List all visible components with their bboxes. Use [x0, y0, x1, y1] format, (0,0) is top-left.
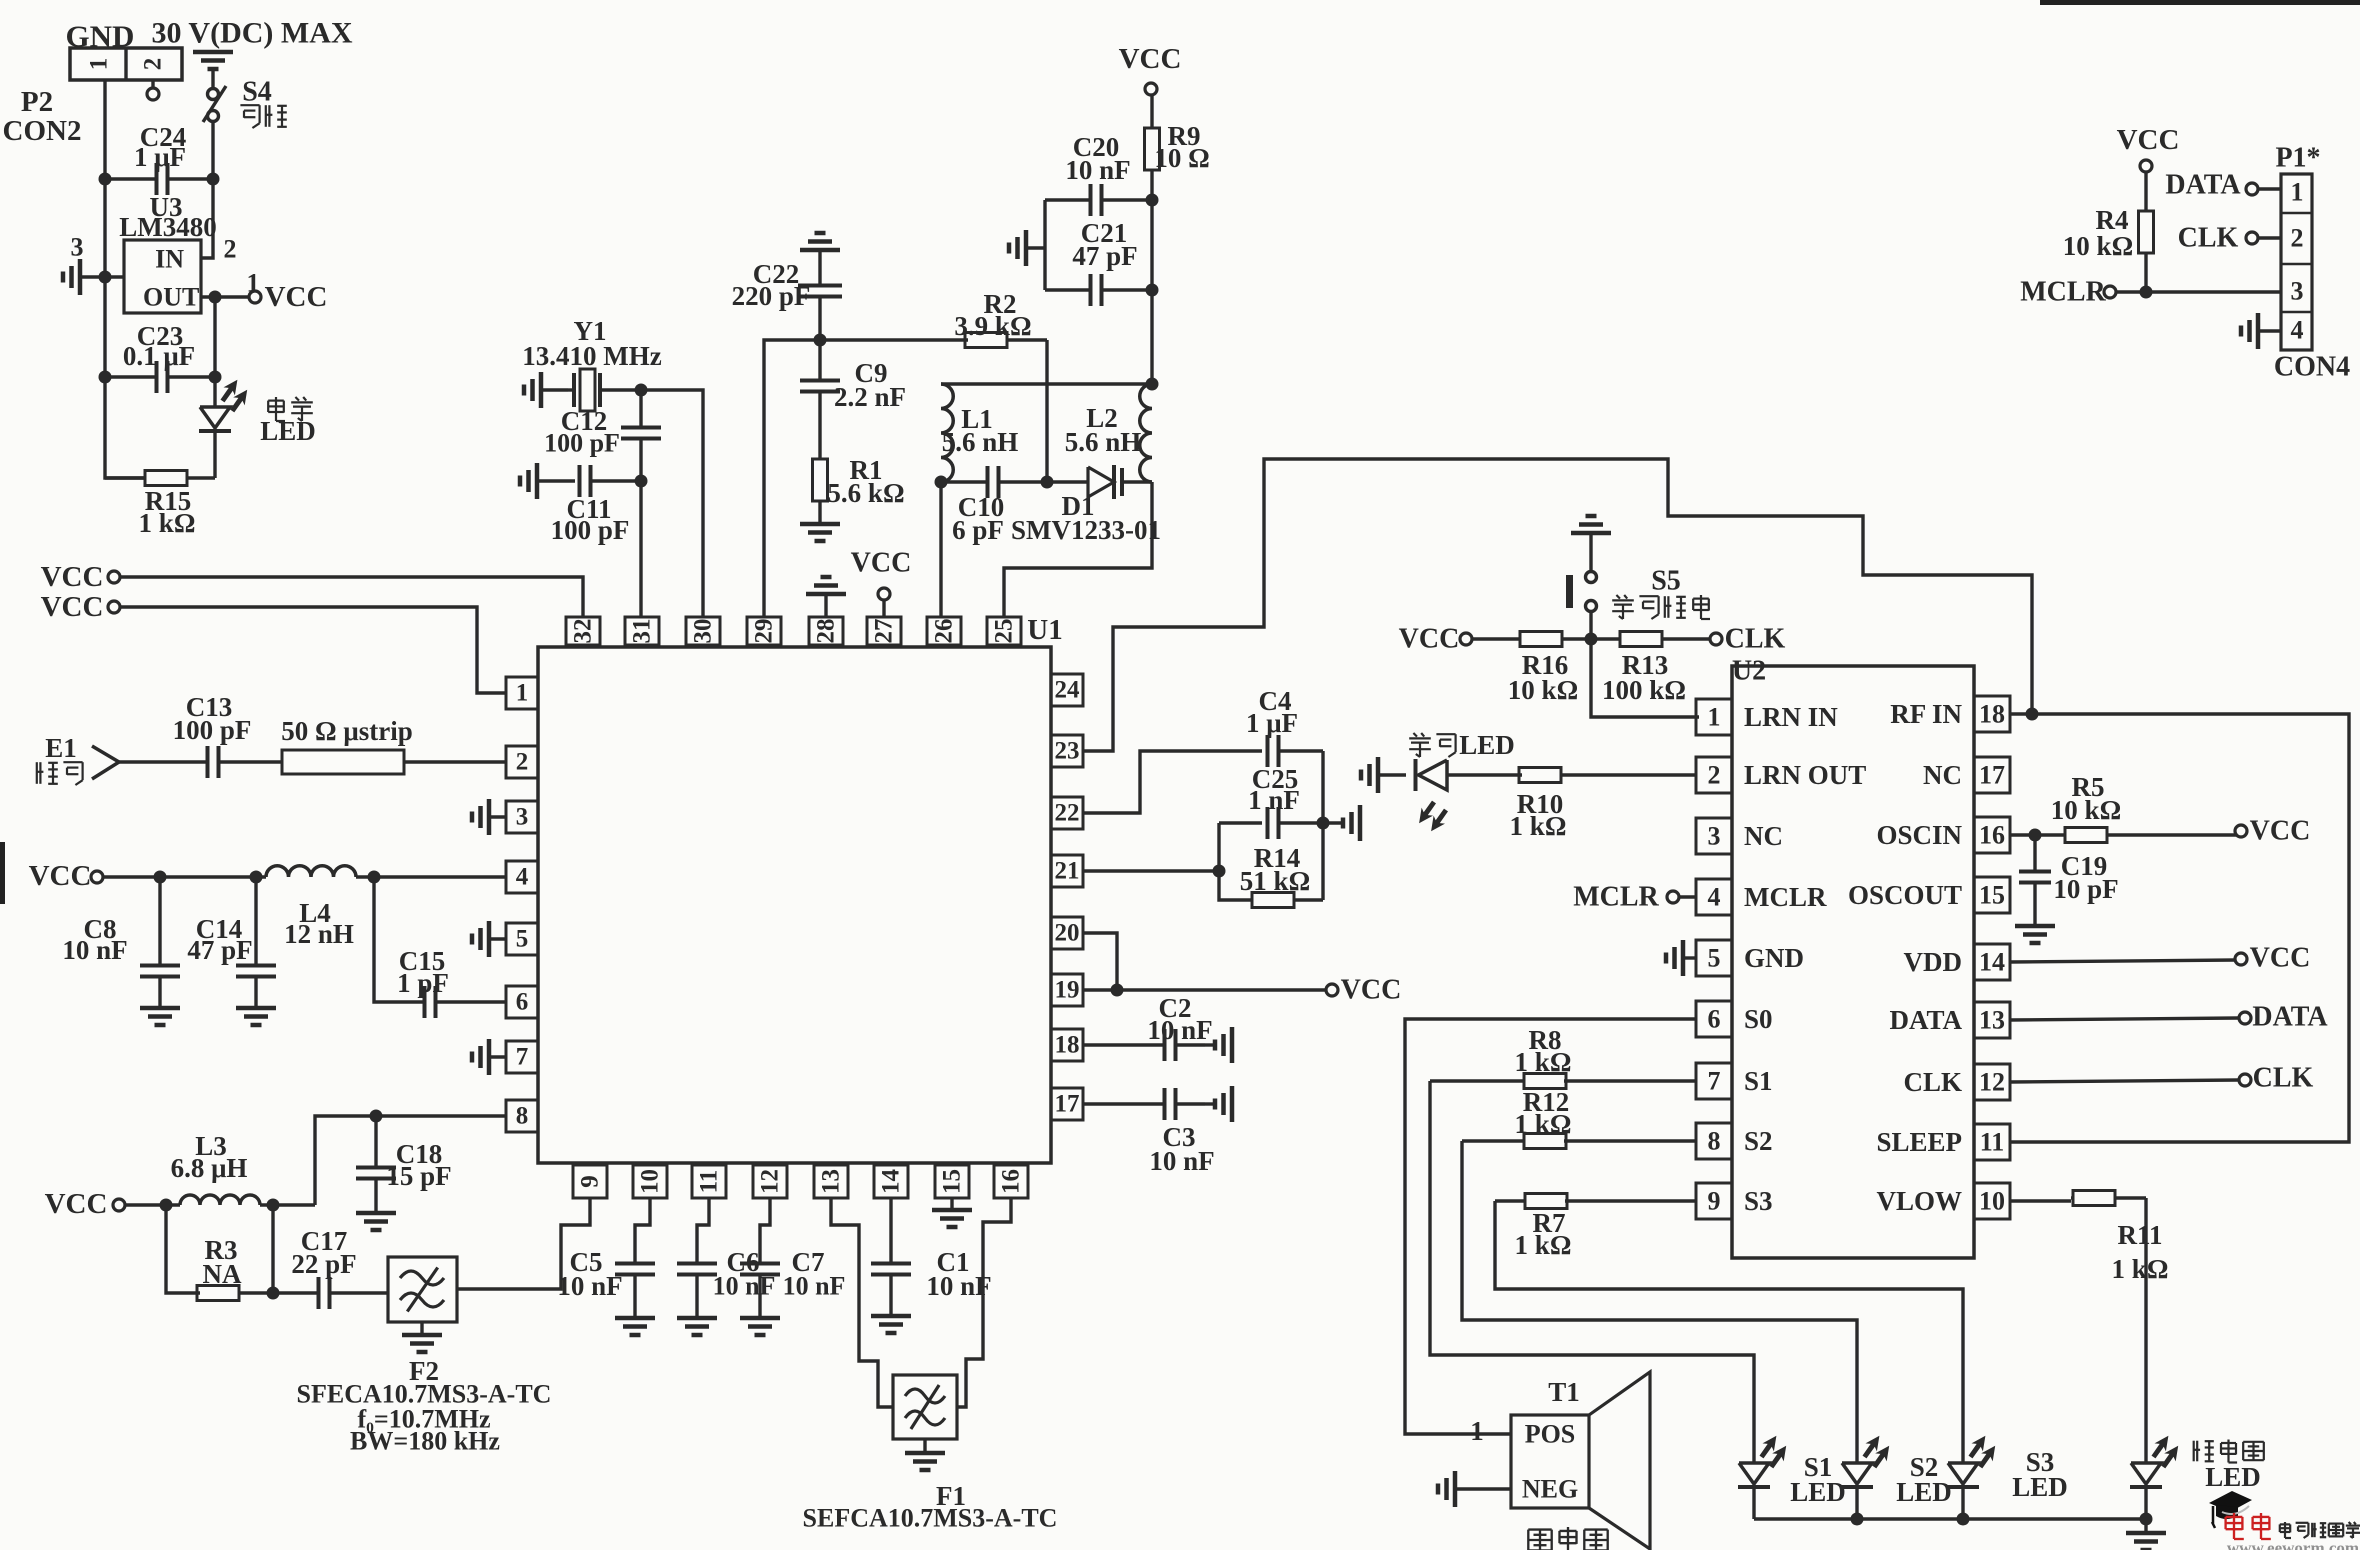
wire Y1 to pin30: [600, 390, 703, 617]
label U3 pin1: [247, 269, 260, 298]
svg-text:18: 18: [1979, 700, 2005, 729]
wire ustrip to pin2: [404, 760, 506, 763]
svg-text:1: 1: [1470, 1416, 1484, 1446]
resistor R15: [105, 471, 215, 486]
wire RFIN row: [2010, 714, 2349, 1142]
svg-text:2: 2: [140, 58, 167, 71]
U2 pin name OSCIN: [1876, 820, 1962, 850]
U1 pin 14: [874, 1165, 908, 1198]
svg-text:7: 7: [516, 1044, 529, 1071]
svg-text:13.410 MHz: 13.410 MHz: [522, 341, 661, 371]
svg-text:8: 8: [1708, 1127, 1721, 1156]
U1 pin 21: [1051, 855, 1083, 887]
label C21 value: [1072, 241, 1137, 271]
svg-text:5.6 nH: 5.6 nH: [942, 427, 1019, 457]
terminal VCC row3: [91, 871, 103, 883]
watermark chongchong: [2226, 1513, 2271, 1539]
svg-text:47 pF: 47 pF: [187, 935, 252, 965]
junction OSCIN: [2029, 829, 2042, 842]
label P2: [21, 86, 53, 118]
ground C22: [800, 233, 840, 250]
svg-text:9: 9: [1708, 1187, 1721, 1216]
label C20 value: [1065, 155, 1130, 185]
junction L1 bottom: [935, 476, 948, 489]
svg-text:1 kΩ: 1 kΩ: [139, 508, 196, 538]
wire DATA to P1: [2258, 187, 2281, 190]
svg-text:CLK: CLK: [2178, 223, 2239, 254]
ground C14: [236, 1008, 276, 1025]
U2 pin name NC: [1923, 760, 1962, 790]
wire pin11 to C6: [697, 1198, 709, 1263]
U1 pin 29: [747, 617, 781, 645]
label C17 value: [291, 1249, 356, 1279]
label C1: [937, 1247, 970, 1277]
svg-text:16: 16: [998, 1169, 1025, 1194]
svg-text:19: 19: [1055, 977, 1080, 1004]
junction RFIN: [2026, 708, 2039, 721]
wire C21 to C20: [1150, 200, 1153, 290]
svg-text:DATA: DATA: [1890, 1005, 1963, 1035]
svg-text:1 kΩ: 1 kΩ: [1515, 1109, 1572, 1139]
capacitor C5: [615, 1264, 655, 1319]
label T1: [1548, 1377, 1580, 1407]
terminal P2 pin2: [147, 88, 159, 100]
svg-text:IN: IN: [155, 245, 184, 274]
svg-text:LED: LED: [2205, 1462, 2261, 1492]
svg-text:VCC: VCC: [2117, 124, 2180, 156]
wire gnd to LED: [1378, 773, 1406, 776]
label xuexi LED cjk: [1409, 733, 1455, 757]
wire pin10 to C5: [635, 1198, 650, 1263]
wire C12 to pin31: [639, 481, 642, 617]
ground C1: [871, 1316, 911, 1333]
U2 pin 7: [1696, 1063, 1732, 1099]
wire antenna to C13: [119, 760, 207, 763]
capacitor C24: [105, 163, 213, 195]
label GND: [66, 19, 135, 54]
label C23 value: [123, 341, 195, 371]
ground P1 pin4: [2241, 313, 2281, 349]
U1 pin 19: [1051, 974, 1083, 1006]
label R13 value: [1602, 675, 1686, 705]
ground learn LED: [1361, 757, 1378, 793]
label F2 bw: [350, 1427, 500, 1456]
label L4 value: [284, 919, 354, 949]
inductor L2: [1140, 384, 1152, 482]
svg-text:LM3480: LM3480: [119, 212, 217, 242]
svg-text:10 nF: 10 nF: [62, 935, 127, 965]
label S3 LED: [2012, 1472, 2068, 1502]
svg-text:20: 20: [1055, 920, 1080, 947]
ground U3 pin3: [63, 259, 105, 295]
wire to C15: [374, 877, 424, 1002]
label VCC row1: [41, 561, 104, 593]
U2 pin name VLOW: [1876, 1186, 1962, 1216]
label VCC row4: [45, 1188, 108, 1220]
svg-text:22 pF: 22 pF: [291, 1249, 356, 1279]
terminal MCLR U2: [1667, 891, 1679, 903]
wire S1 LED down: [1752, 1487, 1755, 1519]
watermark url: [2227, 1539, 2359, 1550]
resistor R7: [1495, 1194, 1567, 1209]
label F2: [409, 1356, 439, 1386]
label xuexi LED: [1459, 730, 1515, 760]
ground pin7: [472, 1039, 506, 1075]
svg-text:R11: R11: [2117, 1220, 2162, 1250]
label R10 value: [1510, 811, 1567, 841]
capacitor C13: [208, 746, 283, 778]
U2 pin 17: [1974, 757, 2010, 793]
ground pin15: [932, 1198, 972, 1227]
buzzer T1: [1511, 1372, 1650, 1549]
svg-text:RF IN: RF IN: [1890, 699, 1962, 729]
ground 30V input: [193, 52, 233, 69]
wire pin23 net: [1083, 459, 2032, 751]
label R11 value: [2112, 1254, 2169, 1284]
capacitor C14: [236, 877, 276, 1008]
svg-text:10: 10: [637, 1169, 664, 1194]
U1 pin 2: [506, 746, 538, 778]
label C11: [566, 494, 611, 524]
wire C22 to row: [818, 297, 821, 340]
resistor R12: [1462, 1134, 1566, 1149]
U2 pin name CLK: [1903, 1067, 1962, 1097]
junction C10 D1: [1041, 476, 1054, 489]
wire S4 to C24: [211, 121, 214, 179]
svg-text:6: 6: [1708, 1005, 1721, 1034]
junction R4 MCLR: [2140, 286, 2153, 299]
junction Y1 C12: [635, 384, 648, 397]
svg-text:T1: T1: [1548, 1377, 1580, 1407]
ground pin5: [472, 921, 506, 957]
svg-text:5.6 kΩ: 5.6 kΩ: [827, 478, 904, 508]
U1 pin 3: [506, 801, 538, 833]
svg-text:13: 13: [818, 1169, 845, 1194]
label C23: [137, 321, 184, 351]
U2 pin name GND: [1744, 943, 1804, 973]
label D1 part: [1011, 515, 1161, 545]
wire R11 to LED: [2144, 1198, 2147, 1463]
wire S3 net: [1565, 1199, 1696, 1202]
wire LED to R15: [213, 431, 216, 478]
U2 pin 3: [1696, 818, 1732, 854]
svg-text:S5: S5: [1651, 566, 1681, 597]
capacitor C12: [621, 390, 661, 481]
svg-text:8: 8: [516, 1103, 529, 1130]
label C9 value: [834, 382, 906, 412]
U1 pin 9: [573, 1165, 607, 1198]
svg-text:15: 15: [1979, 881, 2005, 910]
svg-text:31: 31: [629, 619, 656, 644]
svg-text:VCC: VCC: [29, 860, 92, 892]
label dianyuan: [268, 397, 313, 421]
svg-text:1 kΩ: 1 kΩ: [1510, 811, 1567, 841]
U2 pin 5: [1696, 940, 1732, 976]
capacitor C19: [2019, 835, 2051, 926]
label 30 V(DC) MAX: [151, 17, 352, 50]
terminal CLK P1: [2246, 232, 2258, 244]
U2 pin name S1: [1744, 1066, 1773, 1096]
svg-text:13: 13: [1979, 1006, 2005, 1035]
label DATA U2: [2252, 1002, 2328, 1033]
capacitor C15: [425, 986, 507, 1018]
wire VCC row3: [103, 875, 266, 878]
svg-text:25: 25: [991, 619, 1018, 644]
U2 pin name S0: [1744, 1004, 1773, 1034]
label F1 part: [803, 1504, 1058, 1533]
svg-text:11: 11: [696, 1170, 723, 1194]
svg-text:SEFCA10.7MS3-A-TC: SEFCA10.7MS3-A-TC: [803, 1504, 1058, 1533]
svg-text:S0: S0: [1744, 1004, 1773, 1034]
U2 pin 18: [1974, 696, 2010, 732]
wire gnd to C22: [818, 250, 821, 285]
svg-text:VCC: VCC: [1399, 624, 1460, 655]
terminal VCC out: [249, 291, 261, 303]
microstrip 50ohm: [282, 750, 404, 774]
capacitor C10: [941, 466, 1047, 498]
label C8 value: [62, 935, 127, 965]
svg-text:14: 14: [878, 1169, 905, 1195]
svg-text:30 V(DC) MAX: 30 V(DC) MAX: [151, 17, 352, 50]
watermark logo cap: [2209, 1491, 2252, 1528]
label R3 value: [203, 1259, 242, 1289]
varactor D1: [1047, 465, 1152, 499]
LED S3: [1947, 1436, 1995, 1487]
wire CLK row: [2010, 1080, 2239, 1082]
wire U3 OUT: [201, 295, 249, 298]
label C22: [753, 259, 800, 289]
svg-text:23: 23: [1055, 738, 1080, 765]
svg-text:26: 26: [931, 619, 958, 644]
svg-text:1 nF: 1 nF: [1248, 785, 1300, 815]
svg-text:10 pF: 10 pF: [2053, 874, 2118, 904]
wire to C17: [273, 1291, 318, 1294]
label CLK R13: [1725, 624, 1786, 655]
svg-text:5: 5: [516, 926, 529, 953]
wire VCC to L3: [125, 1203, 180, 1206]
U2 pin name SLEEP: [1876, 1127, 1962, 1157]
connector P1 CON4: [2281, 174, 2312, 350]
svg-text:S1: S1: [1744, 1066, 1773, 1096]
label C18 value: [386, 1161, 451, 1191]
svg-text:CLK: CLK: [2253, 1063, 2314, 1094]
wire LED rail: [1754, 1517, 2146, 1520]
label R11: [2117, 1220, 2162, 1250]
label R2: [984, 289, 1017, 319]
svg-text:2: 2: [516, 749, 529, 776]
wire LED to R10: [1447, 773, 1522, 776]
junction rail lv: [2140, 1513, 2153, 1526]
wire P2 down to C23: [103, 277, 106, 377]
label S2 LED: [1896, 1477, 1952, 1507]
junction C25 R14: [1317, 817, 1330, 830]
U2 pin name S2: [1744, 1126, 1773, 1156]
svg-text:1 kΩ: 1 kΩ: [1515, 1047, 1572, 1077]
svg-text:6.8 μH: 6.8 μH: [171, 1153, 248, 1183]
terminal DATA U2: [2239, 1012, 2251, 1024]
svg-text:17: 17: [1055, 1091, 1080, 1118]
label R12 value: [1515, 1109, 1572, 1139]
wire C4 down: [1321, 751, 1324, 823]
svg-text:2: 2: [1708, 761, 1721, 790]
junction pin3 row: [99, 271, 112, 284]
label C5 value: [557, 1271, 622, 1301]
U1 pin 18: [1051, 1029, 1083, 1061]
U1 pin 20: [1051, 917, 1083, 949]
LED low-voltage: [2130, 1436, 2178, 1487]
svg-text:51 kΩ: 51 kΩ: [1240, 866, 1310, 896]
wire pin20: [1083, 933, 1117, 990]
capacitor C18: [356, 1116, 396, 1213]
svg-text:22: 22: [1055, 800, 1080, 827]
filter F2: [388, 1257, 457, 1322]
wire P2 down to R15: [105, 377, 145, 478]
label R16 value: [1508, 675, 1578, 705]
wire R14 left leg: [1219, 823, 1253, 900]
svg-text:LRN OUT: LRN OUT: [1744, 760, 1866, 790]
crystal Y1: [568, 369, 600, 411]
wire C25 left: [1219, 821, 1262, 824]
svg-text:4: 4: [516, 864, 529, 891]
junction pin21: [1213, 865, 1226, 878]
label C25 value: [1248, 785, 1300, 815]
svg-text:10 nF: 10 nF: [1065, 155, 1130, 185]
label C25: [1252, 764, 1299, 794]
label C11 value: [551, 515, 630, 545]
U1 pin 32: [566, 617, 600, 645]
svg-text:1 kΩ: 1 kΩ: [1515, 1230, 1572, 1260]
svg-text:S2: S2: [1744, 1126, 1773, 1156]
U2 pin name VDD: [1904, 947, 1963, 977]
wire C23 to LED: [213, 377, 216, 407]
pushbutton S5: [1566, 533, 1597, 612]
junction S5 R16 R13: [1585, 633, 1598, 646]
svg-text:18: 18: [1055, 1032, 1080, 1059]
wire pin26 riser: [939, 482, 942, 617]
svg-text:4: 4: [1708, 883, 1721, 912]
U1 pin 30: [686, 617, 720, 645]
svg-text:2.2 nF: 2.2 nF: [834, 382, 906, 412]
label L1: [961, 404, 993, 434]
svg-text:5.6 nH: 5.6 nH: [1065, 427, 1142, 457]
wire S5 down: [1591, 611, 1699, 717]
svg-text:100 pF: 100 pF: [544, 429, 620, 458]
ground R1: [800, 524, 840, 541]
wire R8 stair: [1430, 1081, 1754, 1463]
svg-text:6 pF: 6 pF: [952, 515, 1004, 545]
svg-text:1: 1: [1708, 703, 1721, 732]
svg-text:OSCIN: OSCIN: [1876, 820, 1962, 850]
svg-text:3: 3: [71, 233, 84, 262]
label R16: [1522, 650, 1569, 680]
svg-text:1 μF: 1 μF: [1246, 708, 1298, 738]
terminal VCC pin27: [878, 588, 890, 600]
svg-text:1 pF: 1 pF: [397, 968, 449, 998]
svg-text:CON2: CON2: [3, 115, 82, 147]
junction C23 left: [99, 371, 112, 384]
filter F1: [893, 1375, 957, 1439]
label R4 value: [2063, 231, 2133, 261]
capacitor C17: [319, 1277, 389, 1309]
wire R2 down: [1045, 340, 1048, 482]
U2 pin 16: [1974, 817, 2010, 853]
label R2 value: [954, 311, 1031, 341]
svg-text:VCC: VCC: [851, 548, 912, 579]
svg-text:VLOW: VLOW: [1876, 1186, 1962, 1216]
label R8 value: [1515, 1047, 1572, 1077]
svg-text:10 nF: 10 nF: [1149, 1146, 1214, 1176]
label U3 pin2: [224, 235, 237, 264]
label R5: [2072, 772, 2105, 802]
svg-text:VCC: VCC: [1119, 43, 1182, 75]
junction C18: [370, 1110, 383, 1123]
label R12: [1523, 1087, 1570, 1117]
svg-text:MCLR: MCLR: [1744, 882, 1827, 912]
ground C8: [140, 1008, 180, 1025]
svg-text:NA: NA: [203, 1259, 242, 1289]
IC U1 body: [538, 647, 1051, 1163]
terminal VCC R5: [2235, 825, 2247, 837]
svg-text:1 μF: 1 μF: [134, 142, 186, 172]
junction pin19 pin20: [1111, 984, 1124, 997]
scan artifact left edge: [0, 842, 5, 904]
wire pin22 net: [1083, 751, 1262, 813]
svg-text:GND: GND: [1744, 943, 1804, 973]
wire MCLR to P1: [2116, 290, 2281, 293]
U1 pin 11: [692, 1165, 726, 1198]
label didianya: [2194, 1440, 2264, 1463]
svg-text:10: 10: [1979, 1187, 2005, 1216]
U1 pin 5: [506, 923, 538, 955]
LED power: [199, 380, 247, 431]
ground F1: [905, 1439, 945, 1470]
U2 pin name OSCOUT: [1848, 880, 1962, 910]
svg-text:1: 1: [516, 680, 529, 707]
label C14 value: [187, 935, 252, 965]
capacitor C7: [740, 1264, 780, 1319]
connector P2 CON2: [70, 48, 182, 80]
ground LED rail: [2126, 1519, 2166, 1550]
junction L2 top: [1146, 378, 1159, 391]
svg-text:16: 16: [1979, 821, 2005, 850]
wire R9 column: [1150, 290, 1153, 384]
junction C21 right: [1146, 284, 1159, 297]
svg-text:14: 14: [1979, 948, 2005, 977]
wire C2 gnd: [1205, 1043, 1215, 1046]
label C19 value: [2053, 874, 2118, 904]
U1 pin 23: [1051, 735, 1083, 767]
svg-text:P1*: P1*: [2275, 143, 2320, 174]
label C6 value: [713, 1272, 776, 1301]
resistor R14: [1252, 893, 1323, 908]
wire F2 to pin9: [457, 1198, 590, 1289]
ground C6: [677, 1318, 717, 1335]
U1 pin 16: [994, 1165, 1028, 1198]
U1 pin 25: [987, 617, 1021, 645]
U2 pin name NC: [1744, 821, 1783, 851]
svg-text:29: 29: [751, 619, 778, 644]
label C15: [399, 946, 446, 976]
label R14: [1254, 843, 1301, 873]
terminal VCC R16: [1460, 633, 1472, 645]
svg-text:OSCOUT: OSCOUT: [1848, 880, 1962, 910]
U1 pin 26: [927, 617, 961, 645]
wire CLK to P1: [2258, 236, 2281, 239]
label C9: [855, 358, 888, 388]
label VCC R16: [1399, 624, 1460, 655]
U2 pin 12: [1974, 1064, 2010, 1100]
label L2 value: [1065, 427, 1142, 457]
